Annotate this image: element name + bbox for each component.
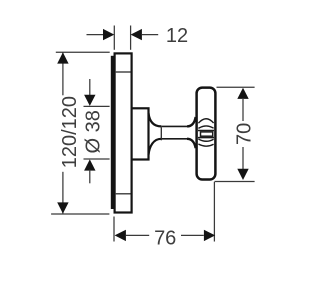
dim Ø38: upper line segment [89,79,91,96]
escutcheon plate side-view black back bar [111,56,116,209]
medallion lower outer arc [198,144,213,146]
dim 76: left arrow [115,230,126,241]
dim Ø38: upper arrow (points down) [84,95,95,106]
dim 12: left extension line [113,26,115,50]
dim 70: lower line segment [242,147,244,170]
svg-text:12: 12 [166,25,188,47]
dim 12: right tail [142,34,158,36]
neck top and bottom lines [161,126,187,138]
dim 76: right tail [181,234,204,236]
dim 70: bottom extension line [215,181,255,183]
dim 12: left arrow [103,29,114,40]
medallion upper inner arc [198,126,213,128]
dim 70: upper line segment [242,98,244,121]
medallion lower inner arc [198,139,213,141]
dim 12: left tail [87,34,104,36]
dim Ø38: lower arrow (points up) [84,159,95,170]
neck-to-handle fillets [187,117,196,148]
dim 70: upper arrow (points up) [237,88,248,99]
dim 70: lower arrow (points down) [237,169,248,180]
dim 120/120: top arrow [57,52,68,63]
dim 76: left extension line [113,217,115,242]
dim 70: top extension line [217,86,255,88]
svg-text:76: 76 [154,228,176,250]
medallion window rect [201,132,213,136]
dim Ø38: bottom extension line [84,158,110,160]
dim 120/120: lower line segment [62,172,64,214]
dim 12: right extension line [130,26,132,50]
dim Ø38: top extension line [84,105,110,107]
svg-text:Ø 38: Ø 38 [83,110,105,153]
medallion band bottom line [198,137,214,139]
dim 120/120: upper line segment [62,52,64,95]
svg-text:70: 70 [233,123,255,145]
handle cone flare (hub to neck) [149,113,162,155]
plate top shoulder line [116,71,131,73]
dim Ø38: lower line segment [89,170,91,184]
dim 120/120: bottom arrow [57,202,68,213]
dim 12: right arrow [131,29,142,40]
handle bar side view (rounded rect, 70 tall) [197,88,216,180]
dim 120/120: bottom extension line [51,213,109,215]
handle hub flange (Ø38) [132,108,149,159]
dim 120/120: top extension line [56,51,110,53]
svg-text:120/120: 120/120 [59,96,81,168]
dim 76: right arrow [204,230,215,241]
dim 76: left tail [126,234,149,236]
medallion upper outer arc [198,119,213,123]
escutcheon plate outline [115,53,132,212]
dim 76: right extension line [213,182,215,242]
medallion band top line [198,130,214,132]
neck collar line [160,127,162,140]
plate bottom shoulder line [116,193,131,195]
